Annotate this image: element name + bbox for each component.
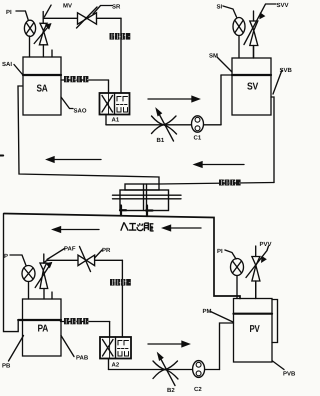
svg-text:SVV: SVV: [277, 2, 289, 9]
svg-text:C1: C1: [194, 135, 202, 142]
svg-text:SM: SM: [209, 53, 218, 60]
svg-text:PAB: PAB: [76, 355, 89, 362]
svg-text:PVB: PVB: [283, 371, 296, 378]
svg-text:PM: PM: [203, 308, 212, 315]
svg-text:PR: PR: [102, 247, 111, 254]
svg-text:C2: C2: [194, 386, 202, 393]
svg-text:SVB: SVB: [280, 67, 293, 74]
svg-text:SV: SV: [247, 82, 259, 93]
svg-text:SI: SI: [217, 4, 223, 11]
svg-text:PI: PI: [217, 248, 223, 255]
svg-text:SAO: SAO: [74, 108, 87, 115]
svg-text:MV: MV: [63, 3, 72, 10]
svg-text:SR: SR: [112, 4, 121, 11]
svg-text:PV: PV: [250, 324, 260, 335]
svg-text:PVV: PVV: [260, 241, 272, 248]
svg-text:PA: PA: [38, 324, 49, 335]
svg-text:SA: SA: [37, 84, 48, 95]
svg-text:PI: PI: [6, 9, 12, 16]
svg-text:SAI: SAI: [2, 61, 12, 68]
svg-text:P: P: [4, 253, 8, 260]
svg-text:B1: B1: [157, 137, 165, 144]
svg-text:A2: A2: [112, 362, 120, 369]
svg-text:A1: A1: [112, 117, 120, 124]
svg-text:PAF: PAF: [64, 246, 76, 253]
svg-text:B2: B2: [167, 387, 175, 394]
svg-text:PB: PB: [2, 363, 11, 370]
